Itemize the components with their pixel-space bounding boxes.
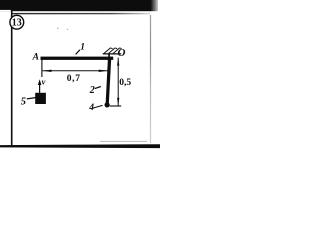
svg-text:0,5: 0,5 — [119, 78, 131, 88]
svg-text:2: 2 — [89, 85, 95, 96]
svg-text:13: 13 — [12, 18, 22, 29]
svg-text:5: 5 — [21, 96, 26, 107]
svg-text:1: 1 — [80, 43, 85, 53]
svg-text:v: v — [42, 77, 46, 87]
svg-text:O: O — [118, 47, 126, 59]
svg-text:4: 4 — [88, 103, 94, 113]
svg-text:0,7: 0,7 — [67, 74, 81, 84]
svg-text:A: A — [32, 52, 39, 62]
